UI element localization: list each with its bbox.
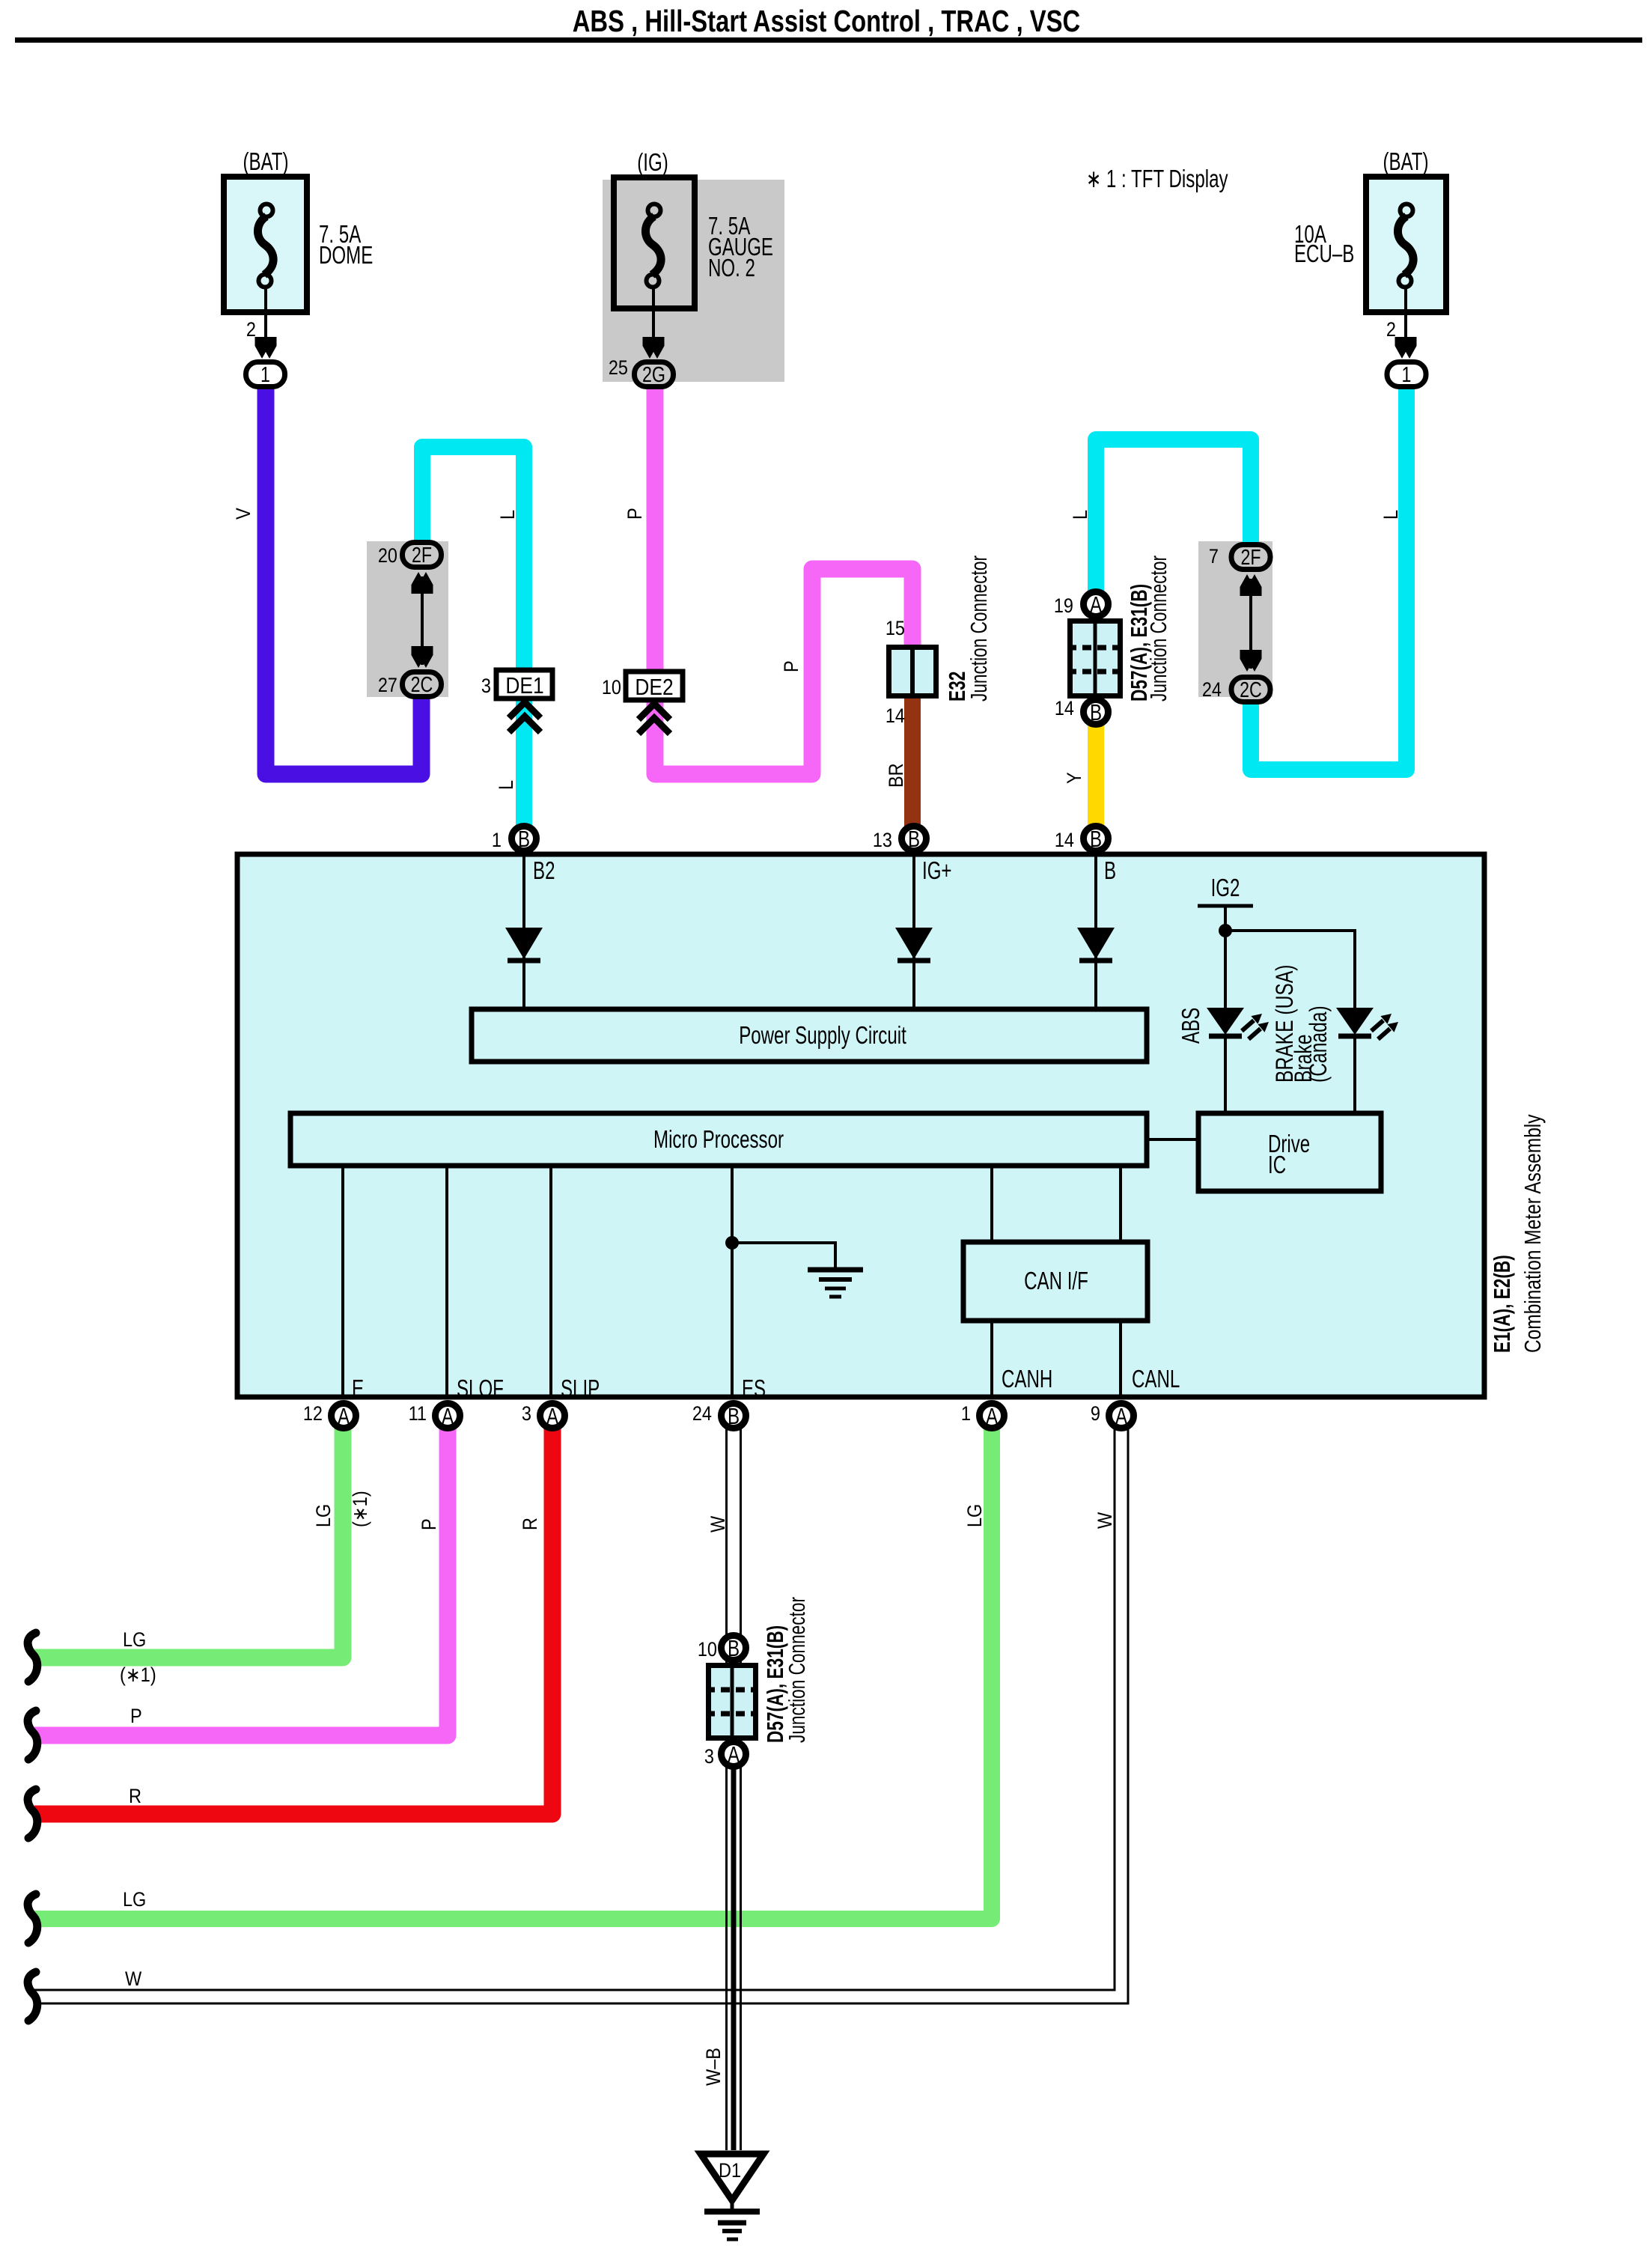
svg-text:B: B <box>908 826 920 852</box>
meter pin 3A <box>540 1403 565 1429</box>
connector pin 14B (D57) <box>1084 699 1109 725</box>
svg-text:LG: LG <box>123 1888 146 1911</box>
meter pin 14B <box>1084 826 1109 852</box>
connector pin 3A (D57 bottom) <box>722 1741 746 1768</box>
svg-text:DE2: DE2 <box>635 674 673 700</box>
wire L (cyan) 2F to DE1 <box>422 447 524 674</box>
svg-text:B: B <box>1104 856 1116 884</box>
gray panel behind IG fuse <box>603 180 784 382</box>
svg-text:ABS , Hill-Start Assist Contro: ABS , Hill-Start Assist Control , TRAC ,… <box>573 4 1081 38</box>
LED BRAKE arrows <box>1371 1014 1398 1039</box>
svg-text:(BAT): (BAT) <box>1383 147 1428 175</box>
net SLOF stub <box>445 1166 448 1397</box>
CANH lower stub <box>990 1321 993 1397</box>
svg-text:A: A <box>728 1741 740 1768</box>
drive IC block <box>1198 1113 1381 1191</box>
svg-text:A: A <box>546 1403 558 1429</box>
svg-text:14: 14 <box>1055 829 1074 851</box>
svg-text:27: 27 <box>378 674 397 696</box>
diode D-B <box>1077 928 1115 961</box>
net ES stub <box>731 1166 734 1397</box>
svg-text:A: A <box>338 1403 350 1429</box>
svg-text:3: 3 <box>481 675 491 697</box>
svg-text:V: V <box>232 508 254 520</box>
svg-text:10: 10 <box>698 1638 717 1661</box>
svg-text:Junction Connector: Junction Connector <box>784 1597 810 1743</box>
svg-text:LG: LG <box>123 1628 146 1651</box>
svg-text:B2: B2 <box>533 856 555 884</box>
wire LG CANH from pin 1A <box>34 1426 992 1919</box>
svg-text:24: 24 <box>692 1402 712 1425</box>
svg-text:14: 14 <box>1055 697 1074 719</box>
svg-text:(∗1): (∗1) <box>349 1491 371 1527</box>
svg-text:9: 9 <box>1091 1402 1100 1425</box>
svg-text:W: W <box>1094 1512 1116 1529</box>
ground D1 triangle <box>701 2154 763 2200</box>
net SLIP stub <box>549 1166 552 1397</box>
svg-text:CANL: CANL <box>1132 1365 1180 1393</box>
internal ground symbol <box>808 1270 863 1297</box>
wire L (cyan) DE1 to meter pin 1B <box>516 689 532 831</box>
svg-text:1: 1 <box>260 363 270 387</box>
svg-text:2: 2 <box>246 318 256 341</box>
power supply circuit block <box>472 1009 1147 1062</box>
connector DE2 <box>626 672 683 700</box>
svg-text:2G: 2G <box>642 363 665 387</box>
svg-text:B: B <box>518 826 530 852</box>
micro processor block <box>290 1113 1147 1166</box>
svg-text:CAN I/F: CAN I/F <box>1024 1267 1088 1294</box>
net CANL stub <box>1119 1166 1122 1242</box>
svg-text:Micro Processor: Micro Processor <box>653 1125 784 1153</box>
svg-text:2F: 2F <box>1240 546 1261 570</box>
wire P (pink) fuse GAUGE to E32 pin 15 <box>655 378 912 774</box>
svg-text:14: 14 <box>886 704 905 727</box>
net E stub <box>341 1166 344 1397</box>
svg-text:20: 20 <box>378 544 397 567</box>
wire LG (*1) from pin 12A <box>34 1426 343 1658</box>
chevrons DE2 <box>638 704 670 734</box>
svg-text:E1(A), E2(B): E1(A), E2(B) <box>1489 1255 1515 1353</box>
fuse 10A ECU-B <box>1294 147 1446 312</box>
svg-text:10: 10 <box>602 676 621 699</box>
connector DE1 <box>496 670 552 699</box>
connector 2C (right) <box>1231 678 1270 703</box>
wire BR (brown) E32 pin 14 to meter pin 13B <box>904 696 921 831</box>
connector 2F (right) <box>1231 545 1270 570</box>
svg-text:13: 13 <box>873 829 892 851</box>
svg-text:L: L <box>496 510 519 520</box>
svg-text:A: A <box>986 1403 998 1429</box>
chevrons DE1 <box>509 702 540 732</box>
arrow to connector 2G <box>643 337 665 359</box>
svg-text:(BAT): (BAT) <box>243 147 288 175</box>
node IG+ lead <box>912 854 915 1009</box>
connector pin 19A (D57) <box>1084 591 1109 618</box>
svg-text:1: 1 <box>1402 363 1412 387</box>
arrow to connector 1 right <box>1395 337 1417 359</box>
svg-text:P: P <box>418 1518 440 1530</box>
LED ABS <box>1207 1008 1244 1113</box>
svg-text:25: 25 <box>609 356 628 379</box>
node IG2 <box>1198 874 1253 931</box>
meter pin 9A <box>1109 1403 1134 1429</box>
svg-text:3: 3 <box>704 1745 714 1768</box>
wire W / W-B from pin 24B to ground D1 <box>727 1426 741 2150</box>
svg-text:P: P <box>780 660 802 672</box>
svg-text:3: 3 <box>522 1402 531 1425</box>
meter pin 24B <box>722 1403 746 1429</box>
fuse 7.5A GAUGE NO.2 <box>614 148 773 308</box>
svg-text:NO. 2: NO. 2 <box>708 254 755 281</box>
svg-text:L: L <box>1069 510 1091 520</box>
wire Y (yellow) D57 pin 14B to meter pin 14B <box>1088 717 1104 831</box>
svg-text:W–B: W–B <box>702 2048 725 2086</box>
svg-text:2: 2 <box>1386 318 1396 341</box>
svg-text:W: W <box>125 1967 142 1990</box>
node B lead <box>1094 854 1097 1009</box>
svg-text:1: 1 <box>492 829 502 851</box>
svg-text:IC: IC <box>1268 1151 1286 1178</box>
wire W CANL from pin 9A (white with outline) <box>34 1425 1121 1997</box>
svg-text:(Canada): (Canada) <box>1305 1005 1332 1083</box>
MP to Drive IC link <box>1147 1138 1198 1141</box>
jump arrow 2F-2C left <box>412 572 433 668</box>
meter pin 1A <box>980 1403 1005 1429</box>
combination meter assembly box <box>237 854 1484 1397</box>
svg-text:B: B <box>1090 699 1102 725</box>
svg-text:B: B <box>728 1635 740 1661</box>
svg-text:P: P <box>130 1705 142 1727</box>
svg-text:B: B <box>1090 826 1102 852</box>
diode D-B2 <box>505 928 543 961</box>
internal ground branch <box>732 1243 835 1268</box>
svg-text:ES: ES <box>742 1375 766 1402</box>
junction connector D57(A),E31(B) bottom <box>706 1665 758 1738</box>
svg-text:2C: 2C <box>411 673 433 697</box>
fuse ECU-B pin 2 lead <box>1404 287 1407 341</box>
wire L (cyan) 2F right to D57 pin 19A <box>1096 439 1251 599</box>
label BRAKE (USA) Brake (Canada) <box>1271 965 1332 1083</box>
svg-text:SLOF: SLOF <box>457 1375 504 1402</box>
svg-text:12: 12 <box>303 1402 323 1425</box>
svg-text:DOME: DOME <box>319 241 373 269</box>
svg-text:7: 7 <box>1209 545 1219 567</box>
meter pin 1B <box>512 826 537 852</box>
svg-text:Combination Meter Assembly: Combination Meter Assembly <box>1520 1114 1546 1353</box>
svg-text:BR: BR <box>885 763 907 788</box>
diode D-IG+ <box>895 928 933 961</box>
IG2 branch wires <box>1225 931 1355 1008</box>
svg-text:B: B <box>728 1403 740 1429</box>
title rule <box>15 37 1642 43</box>
svg-text:1: 1 <box>961 1402 971 1425</box>
net CANH stub <box>990 1166 993 1242</box>
fuse 7.5A DOME <box>224 147 373 312</box>
svg-text:SLIP: SLIP <box>561 1375 600 1402</box>
CAN I/F block <box>963 1242 1147 1321</box>
junction connector E32 <box>889 647 936 696</box>
svg-text:19: 19 <box>1054 594 1073 617</box>
svg-text:P: P <box>624 508 646 520</box>
svg-text:L: L <box>495 780 517 790</box>
arrow to connector 1 <box>255 337 277 359</box>
svg-text:A: A <box>1115 1403 1127 1429</box>
junction connector D57(A),E31(B) top <box>1067 621 1123 696</box>
squiggle R <box>28 1789 37 1838</box>
svg-text:∗ 1 : TFT Display: ∗ 1 : TFT Display <box>1086 165 1228 192</box>
svg-text:D1: D1 <box>719 2159 741 2182</box>
svg-text:(∗1): (∗1) <box>120 1664 156 1686</box>
svg-text:Junction Connector: Junction Connector <box>1145 556 1171 702</box>
junction IG2 <box>1219 924 1232 937</box>
svg-text:A: A <box>1090 591 1102 618</box>
squiggle W CANL <box>28 1972 37 2021</box>
LED ABS arrows <box>1242 1014 1269 1039</box>
svg-text:Y: Y <box>1063 772 1085 784</box>
svg-text:LG: LG <box>963 1504 986 1527</box>
svg-text:(IG): (IG) <box>637 148 668 176</box>
meter pin 12A <box>332 1403 356 1429</box>
svg-text:IG2: IG2 <box>1211 874 1240 901</box>
CANL lower stub <box>1119 1321 1122 1397</box>
svg-text:IG+: IG+ <box>922 856 952 884</box>
svg-text:W: W <box>707 1515 729 1533</box>
svg-text:ABS: ABS <box>1177 1008 1204 1044</box>
junction ES <box>725 1236 739 1250</box>
svg-text:24: 24 <box>1202 678 1222 701</box>
svg-text:E: E <box>352 1375 364 1402</box>
connector pin 25 2G <box>635 362 674 388</box>
svg-text:15: 15 <box>886 617 905 639</box>
connector pin 10B (D57 bottom) <box>722 1635 746 1661</box>
svg-text:DE1: DE1 <box>505 672 543 699</box>
jump arrow 2F-2C right <box>1240 574 1262 672</box>
squiggle LG (*1) <box>28 1633 37 1682</box>
gray panel behind 2F/2C connector (right) <box>1198 541 1272 697</box>
earth ground symbol <box>704 2202 760 2239</box>
gray panel behind 2F/2C connector (left) <box>367 541 448 697</box>
connector pin 1 (ECU-B) <box>1387 362 1426 388</box>
svg-text:2F: 2F <box>412 544 432 567</box>
svg-text:A: A <box>442 1403 454 1429</box>
fuse DOME pin 2 lead <box>264 287 267 341</box>
LED BRAKE <box>1336 1008 1374 1113</box>
svg-text:L: L <box>1380 510 1402 520</box>
squiggle P <box>28 1711 37 1759</box>
svg-text:Junction Connector: Junction Connector <box>966 556 992 702</box>
svg-text:R: R <box>519 1518 541 1530</box>
wire L (cyan) fuse ECU-B pin 1 to 2C right <box>1251 383 1406 770</box>
connector pin 1 (DOME) <box>246 362 285 388</box>
meter pin 13B <box>902 826 927 852</box>
connector 2F (left) <box>403 543 442 568</box>
wire P from pin 11A <box>34 1426 448 1735</box>
svg-text:ECU–B: ECU–B <box>1294 240 1354 267</box>
svg-text:2C: 2C <box>1240 678 1262 702</box>
wire V (violet) from fuse DOME pin 1 to 2C <box>266 382 421 774</box>
svg-text:LG: LG <box>312 1504 335 1527</box>
svg-text:11: 11 <box>409 1402 427 1425</box>
meter pin 11A <box>436 1403 460 1429</box>
wire R from pin 3A <box>34 1426 552 1814</box>
connector 2C (left) <box>403 672 442 698</box>
squiggle LG CANH <box>28 1894 37 1943</box>
svg-text:R: R <box>129 1785 141 1807</box>
node B2 lead <box>522 854 525 1009</box>
fuse GAUGE pin lead <box>652 287 655 341</box>
svg-text:Power Supply Circuit: Power Supply Circuit <box>739 1021 906 1049</box>
svg-text:CANH: CANH <box>1002 1365 1052 1393</box>
